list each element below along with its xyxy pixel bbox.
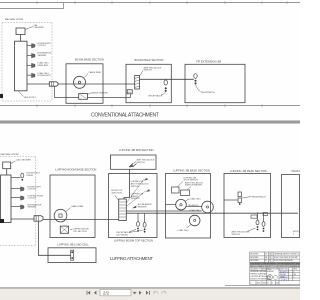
svg-text:2: 2 (269, 260, 270, 262)
wire below connector (55, 86, 79, 97)
bulkhead connector J1 (49, 82, 58, 86)
svg-text:SENDER: SENDER (131, 198, 140, 200)
GN box B jib peak (263, 213, 268, 216)
leader jib base labels (177, 182, 183, 188)
svg-text:CABLE REEL: CABLE REEL (89, 71, 103, 74)
svg-text:BOOM BASE SECTION: BOOM BASE SECTION (75, 57, 104, 61)
boom top plug A (137, 222, 140, 227)
junction box luffing boom base (60, 226, 68, 233)
wire into jib base (166, 204, 176, 206)
svg-text:GENERAL ARRGT WIRING LUFF JIB: GENERAL ARRGT WIRING LUFF JIB (274, 253, 300, 256)
jib base sheave 2 (202, 201, 214, 213)
manufacturer logo (268, 275, 273, 280)
boom base section box (66, 64, 103, 104)
svg-text:REVISED: REVISED (250, 254, 259, 256)
leader terminal strip label (115, 196, 119, 201)
svg-text:TOP SECTION: TOP SECTION (73, 231, 88, 233)
cal checker box U1 (16, 28, 25, 35)
title block texts (250, 253, 307, 285)
leader receptacle label (161, 92, 166, 96)
leader junction label p2 (70, 229, 72, 231)
svg-text:ANGLE SENDER: ANGLE SENDER (92, 91, 109, 94)
GN junction box (127, 90, 132, 94)
page separator bar (0, 120, 300, 123)
leader cal checker label p2 (11, 161, 16, 164)
svg-text:RECEPTACLE: RECEPTACLE (149, 94, 163, 97)
svg-text:A03269-4: A03269-4 (280, 270, 290, 273)
svg-text:SWITCH: SWITCH (137, 162, 146, 164)
svg-text:MACHINE UPPER: MACHINE UPPER (1, 153, 20, 156)
wire to luffing sensor 4 (11, 206, 21, 208)
anti two-block switch mid (129, 163, 137, 167)
jib sensor 2 (146, 189, 150, 192)
luffing jib mid section box (111, 155, 157, 169)
sheet top border line page 1 (0, 3, 300, 9)
boom hoist reel sheave (74, 76, 86, 88)
luffing plug 1 (21, 173, 24, 178)
svg-text:GN: GN (128, 92, 132, 94)
svg-text:2 OF 2: 2 OF 2 (281, 279, 288, 281)
wire to luffing plug 1 (11, 177, 21, 179)
svg-text:2/2: 2/2 (276, 283, 279, 285)
svg-text:RECEPTACLE: RECEPTACLE (252, 195, 266, 198)
wire to luffing sensor 3 (11, 197, 21, 199)
svg-text:MACHINE UPPER: MACHINE UPPER (5, 18, 24, 21)
luffing sensor 4 (21, 205, 25, 209)
property note band (250, 263, 300, 265)
wire to luffing sensor 2 (11, 188, 21, 190)
console terminal block (page2) (1, 175, 11, 223)
wire drop to top plugs (137, 213, 139, 222)
svg-text:CUTOUT: CUTOUT (28, 198, 37, 200)
jib base junction box B (181, 190, 190, 196)
wire cal checker to console (20, 35, 22, 42)
svg-text:DRUM: DRUM (27, 175, 34, 177)
machine upper dashed enclosure (page1) (2, 23, 52, 102)
sensor plug 4 (32, 73, 36, 78)
wire connector down to load cell (38, 221, 70, 255)
svg-text:09: 09 (265, 254, 267, 256)
svg-text:BOOM HOIST: BOOM HOIST (38, 75, 52, 77)
note leader at console bottom (18, 91, 24, 97)
toolbar next page button (139, 291, 142, 295)
wire to sensor 2 (27, 54, 32, 56)
leader top plugs label (129, 229, 136, 232)
svg-text:CHECKER: CHECKER (34, 27, 45, 29)
svg-text:LOAD CELL: LOAD CELL (178, 229, 190, 232)
boom top plug B (143, 222, 146, 227)
svg-text:LUFFING JIB BASE SECTION: LUFFING JIB BASE SECTION (173, 169, 210, 173)
svg-text:PEAK EXT: PEAK EXT (292, 169, 301, 173)
svg-text:RECEPTACLE: RECEPTACLE (201, 91, 215, 94)
svg-text:4: 4 (293, 271, 294, 273)
svg-text:LOAD CELL: LOAD CELL (190, 197, 202, 200)
svg-text:4: 4 (250, 283, 251, 285)
boom peak section box (126, 64, 171, 102)
wire cal checker to console p2 (6, 169, 8, 175)
svg-text:LUFFING JIB LOAD CELL: LUFFING JIB LOAD CELL (57, 243, 89, 247)
svg-text:SENDER: SENDER (138, 207, 147, 209)
sensor plug 1 (32, 44, 36, 49)
wire switch to receptacle (140, 78, 194, 80)
toolbar last page button (146, 291, 150, 295)
svg-text:2: 2 (293, 277, 294, 279)
svg-text:DWG NO: DWG NO (280, 269, 289, 271)
peak extension box (282, 175, 300, 238)
wire to sensor 4 (27, 74, 32, 76)
leader junction label (87, 93, 91, 95)
svg-text:AND IS LOANED SUBJECT TO RETUR: AND IS LOANED SUBJECT TO RETURN UPON DEM… (250, 265, 300, 268)
luffing cable reel sheave (54, 209, 67, 222)
svg-text:(2) PLACES: (2) PLACES (117, 233, 129, 236)
viewer toolbar (0, 287, 300, 300)
svg-text:CAL CHECKER: CAL CHECKER (16, 159, 31, 162)
svg-text:ECN 20981 REISSUE: ECN 20981 REISSUE (274, 260, 293, 262)
long wire to jib sections (126, 212, 298, 214)
luffing jib load cell box (48, 248, 96, 263)
wire strip to jib sensor 2 (126, 191, 146, 207)
jib base sheave 1 (176, 199, 187, 210)
svg-text:DEAD END: DEAD END (38, 64, 49, 67)
tip extension plug (194, 74, 197, 79)
leader to cal checker label (25, 27, 33, 30)
svg-text:BOOM PEAK SECTION: BOOM PEAK SECTION (135, 58, 164, 62)
svg-text:SWITCH: SWITCH (144, 70, 153, 72)
jib peak plug A (256, 220, 259, 225)
svg-text:REVISED: REVISED (250, 260, 259, 262)
svg-text:LOAD CELL: LOAD CELL (190, 209, 202, 212)
wire bundle to right sections (126, 210, 201, 212)
toolbar page field (100, 289, 131, 295)
leader bottom plugs label (247, 228, 256, 232)
leader sheave1 label (186, 199, 190, 201)
svg-text:07: 07 (265, 260, 267, 262)
svg-text:CONVENTIONAL ATTACHMENT: CONVENTIONAL ATTACHMENT (91, 113, 159, 119)
svg-text:08: 08 (265, 257, 267, 259)
sensor plug 3 (32, 63, 36, 68)
wire connector to boom base (58, 83, 135, 85)
svg-text:JIB ANGLE: JIB ANGLE (188, 204, 199, 207)
wire console to luffing connector (11, 218, 34, 220)
wire to sensor 1 (27, 45, 32, 47)
title block table (250, 252, 300, 285)
hyperlink texts blue (280, 270, 290, 281)
load cell pin (71, 250, 74, 260)
svg-text:SENDER: SENDER (38, 55, 47, 57)
luffing jib peak section box (224, 174, 271, 238)
svg-text:LUFFING ATTACHMENT: LUFFING ATTACHMENT (110, 256, 153, 261)
svg-text:CUTOUT: CUTOUT (28, 189, 37, 191)
toolbar dropdown arrow (133, 292, 137, 295)
leader jib peak plug label (242, 197, 252, 199)
svg-text:ECN 21345 REV B PER MP: ECN 21345 REV B PER MP (274, 257, 298, 259)
luffing boom top section box (109, 174, 158, 238)
wire console to bulkhead connector (27, 83, 49, 85)
svg-text:CABLE REEL: CABLE REEL (71, 205, 85, 208)
svg-text:LUFFING BOOM BASE SECTION: LUFFING BOOM BASE SECTION (55, 167, 96, 171)
svg-text:LUFFING BOOM TOP SECTION: LUFFING BOOM TOP SECTION (114, 238, 153, 242)
wire strip to jib sensor 1 (126, 180, 143, 204)
tip extension jib box (185, 64, 245, 102)
wire junction box to boom peak (87, 97, 130, 99)
toolbar first page button (87, 291, 91, 295)
svg-text:SEE NOTE 1: SEE NOTE 1 (24, 97, 37, 99)
GN box A jib peak (251, 215, 257, 218)
wire drops to bottom plugs jib peak (257, 212, 259, 220)
leader sheave3 label (187, 225, 192, 229)
svg-text:A03: A03 (257, 282, 260, 285)
console terminal block (page1) (15, 41, 28, 91)
svg-text:NONE: NONE (280, 274, 286, 276)
junction box in boom base (79, 94, 88, 100)
svg-text:2: 2 (271, 254, 272, 256)
svg-text:2/2: 2/2 (103, 291, 110, 296)
wire mid section down (124, 169, 130, 199)
leader tip plug label (196, 84, 201, 91)
svg-text:SWITCH: SWITCH (232, 234, 241, 236)
sensor plug 2 (32, 53, 36, 58)
border zone tick marks (37, 1, 287, 4)
svg-text:SENDER: SENDER (28, 207, 37, 209)
wire sheave1 to sheave2 (186, 206, 201, 208)
wire into jib peak (224, 199, 238, 201)
luffing boom base section box (50, 175, 95, 238)
luffing jib base section box (166, 174, 211, 239)
jib peak plug pair (238, 192, 242, 197)
svg-text:LUFFING JIB MID SECTION: LUFFING JIB MID SECTION (119, 148, 154, 152)
jib sensor 1 (144, 178, 148, 181)
svg-text:SWITCH: SWITCH (131, 186, 140, 188)
machine upper dashed enclosure (page2) (0, 157, 36, 246)
cal checker box (page2) (3, 162, 11, 169)
jib base junction box A (172, 187, 180, 193)
luffing sensor 2 (21, 187, 25, 191)
leader sheave label (85, 74, 89, 78)
boom angle sender arrow (132, 206, 136, 209)
svg-text:JUNCTION: JUNCTION (111, 192, 122, 194)
scan mark page2 (0, 219, 4, 223)
luffing bulkhead connector (34, 216, 43, 221)
svg-text:CUTOUT: CUTOUT (38, 45, 47, 47)
toolbar history buttons (disabled) (154, 291, 166, 293)
svg-text:TIP EXTENSION JIB: TIP EXTENSION JIB (196, 60, 221, 64)
toolbar prev page button (94, 291, 97, 295)
receptacle plug boom peak (164, 80, 167, 85)
svg-text:4: 4 (269, 254, 270, 256)
wire connector to luffing boom base (43, 218, 119, 220)
leader anti two-block label (140, 71, 144, 77)
svg-text:LUFFING JIB PEAK SECTION: LUFFING JIB PEAK SECTION (230, 169, 267, 173)
anti two-block weight switch (135, 76, 140, 90)
wire to sensor 3 (27, 64, 32, 66)
page2 bottom sheet border (225, 284, 300, 286)
scan mark page1 (0, 94, 3, 98)
jib base sheave 3 (189, 215, 200, 226)
jib peak plug B (262, 222, 265, 227)
terminal strip (119, 199, 127, 221)
page1 bottom sheet border (0, 105, 300, 107)
svg-text:SWITCH WEIGHT: SWITCH WEIGHT (185, 185, 203, 187)
luffing sensor 3 (21, 196, 25, 200)
leader sheave label p2 (66, 208, 71, 212)
svg-text:3: 3 (269, 257, 270, 259)
leader mid switch label (134, 162, 136, 164)
svg-text:REVISED: REVISED (250, 257, 259, 259)
